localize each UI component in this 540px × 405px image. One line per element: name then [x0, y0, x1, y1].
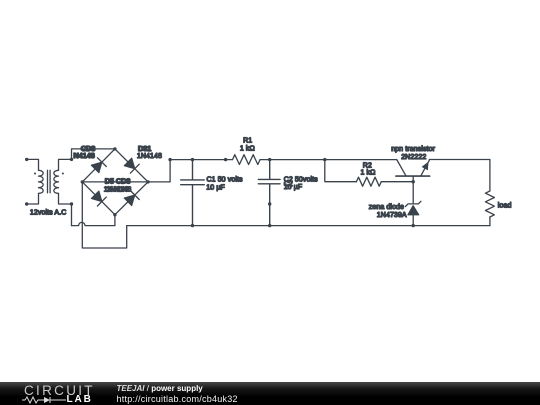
svg-text:zena diode: zena diode	[369, 204, 404, 211]
svg-text:1 kΩ: 1 kΩ	[361, 169, 376, 176]
node C1 bottom	[191, 224, 194, 227]
svg-text:C1 50 volts: C1 50 volts	[207, 177, 244, 184]
wire R2 branch drop	[325, 160, 357, 182]
svg-text:12volts A.C: 12volts A.C	[30, 209, 67, 216]
wire top rail emitter to load	[429, 160, 490, 192]
node C2 top	[268, 158, 271, 161]
capacitor C1	[181, 160, 205, 226]
inductor secondary winding	[54, 170, 59, 193]
resistor R1 zigzag	[233, 155, 261, 165]
wire primary top lead	[27, 159, 39, 170]
zener diode D7 bar with hooks	[405, 201, 421, 206]
svg-text:npn transistor: npn transistor	[391, 146, 435, 153]
wire bridge middle horizontal	[82, 181, 148, 183]
transformer core	[48, 170, 51, 193]
footer title	[117, 384, 203, 393]
wire top rail left section	[170, 159, 232, 161]
wire top rail right of R1	[260, 159, 397, 161]
footer bar	[0, 382, 540, 405]
logo squiggle resistor and diode	[22, 396, 66, 404]
inductor primary winding	[39, 170, 44, 193]
svg-text:1N4739A: 1N4739A	[377, 212, 407, 219]
resistor load zigzag	[485, 191, 494, 217]
svg-text:2N2222: 2N2222	[401, 154, 426, 161]
wire bridge diamond arms	[82, 149, 148, 215]
node bridge bottom	[113, 213, 116, 216]
wire primary bottom lead	[27, 193, 39, 204]
node C2 lead overlap	[268, 202, 271, 205]
transformer T1 primary terminal dots	[25, 158, 28, 206]
footer url	[117, 394, 238, 404]
svg-text:R1: R1	[243, 137, 252, 144]
svg-text:1N4148: 1N4148	[137, 153, 162, 160]
CircuitLab logo LAB	[67, 395, 93, 405]
wire secondary top to bridge top node	[59, 149, 115, 170]
capacitor C2	[258, 160, 280, 226]
CircuitLab logo text CIRCUIT	[24, 384, 95, 398]
svg-text:D5 CD8: D5 CD8	[105, 178, 131, 185]
node C2 bottom	[268, 224, 271, 227]
svg-text:10 µF: 10 µF	[284, 184, 303, 191]
wire transformer return down	[71, 204, 73, 226]
node bridge top	[113, 147, 116, 150]
node zener bottom	[412, 224, 415, 227]
transistor Q1 emitter with arrow	[421, 160, 430, 176]
node C1 top	[191, 158, 194, 161]
svg-text:10 µF: 10 µF	[206, 185, 225, 192]
svg-text:N4148: N4148	[74, 153, 95, 160]
wire secondary bottom lead	[59, 193, 72, 204]
node bridge right	[146, 180, 149, 183]
diode D1 top-right arm	[124, 158, 139, 173]
wire bridge right node to top rail riser	[148, 160, 170, 182]
wire base vertical	[412, 176, 414, 203]
svg-text:CD8: CD8	[81, 146, 95, 153]
node at secondary top corner	[70, 158, 73, 161]
resistor R2 zigzag	[356, 177, 381, 186]
node riser top	[168, 158, 171, 161]
node base junction	[412, 180, 415, 183]
svg-text:1N4148: 1N4148	[106, 186, 131, 193]
wire zener to ground rail	[412, 215, 414, 226]
diode D4 bottom-left arm	[91, 191, 106, 206]
transformer phase dots	[34, 173, 64, 175]
node R2 branch	[323, 158, 326, 161]
wire R2 to base	[381, 181, 413, 183]
node stray before R1	[224, 158, 227, 161]
diode D2 bottom-right arm	[124, 191, 139, 206]
transistor Q1 base bar	[396, 175, 430, 177]
diode D8 top-left arm	[91, 158, 106, 173]
svg-text:load: load	[498, 202, 512, 209]
zener diode D7 triangle	[408, 206, 419, 215]
wire left node drop and loop	[82, 182, 126, 248]
node bridge left	[81, 180, 84, 183]
node junction at transformer bottom	[70, 202, 73, 205]
wire ground rail	[127, 225, 490, 227]
wire load bottom lead	[489, 217, 491, 226]
svg-text:1 kΩ: 1 kΩ	[240, 145, 255, 152]
wire AC return with hop over ground drop	[72, 215, 115, 226]
transistor Q1 collector diagonal	[397, 160, 406, 176]
